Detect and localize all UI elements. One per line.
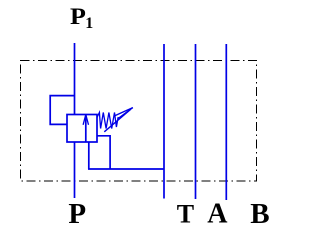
wire T port line bbox=[163, 44, 165, 199]
wire P outlet line bbox=[74, 142, 76, 198]
wire B port line bbox=[225, 44, 227, 200]
svg-text:T: T bbox=[177, 199, 194, 228]
svg-text:A: A bbox=[207, 199, 228, 230]
svg-text:P: P bbox=[70, 4, 86, 29]
port label P1 bbox=[70, 4, 93, 32]
enclosure boundary (dash-dot box) bbox=[21, 61, 257, 182]
wire drain from valve bottom bbox=[88, 142, 90, 169]
valve RV1 internal flow path arrow bbox=[83, 115, 88, 143]
svg-text:B: B bbox=[250, 198, 269, 230]
wire P1 inlet line bbox=[74, 43, 76, 115]
valve RV1 body bbox=[67, 115, 97, 143]
wire drain horizontal to T line bbox=[88, 168, 164, 170]
wire drain step from valve right side bbox=[97, 136, 110, 169]
pilot line (left loop) bbox=[50, 96, 74, 125]
spring (adjustable) bbox=[97, 113, 118, 129]
wire A port line bbox=[195, 44, 197, 199]
svg-text:1: 1 bbox=[85, 15, 93, 32]
adjustment arrow through spring bbox=[104, 108, 133, 132]
svg-text:P: P bbox=[68, 198, 86, 230]
